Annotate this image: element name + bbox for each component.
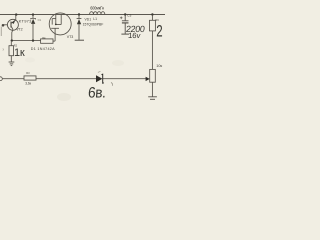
svg-text:1к: 1к [14, 47, 25, 59]
svg-text:600мкГн: 600мкГн [90, 6, 104, 11]
inductor L1 [90, 12, 105, 15]
ground under C3 [121, 33, 129, 35]
svg-text:VT3: VT3 [67, 35, 73, 39]
node control-left junction [11, 39, 13, 41]
resistor R9 [150, 16, 156, 70]
svg-text:10к: 10к [156, 64, 162, 68]
node zener top junction [32, 13, 34, 15]
transistor Q VT2 [3, 15, 18, 39]
left-edge blob (cut-off wire) [2, 24, 5, 27]
svg-text:2: 2 [156, 22, 162, 41]
paper background [0, 0, 165, 110]
resistor R3 [24, 76, 36, 80]
wire left-edge faint stub [0, 27, 2, 37]
ground under potentiometer [148, 97, 157, 100]
wire control line [12, 40, 41, 42]
ground under VD1 [75, 39, 84, 41]
svg-text:6в.: 6в. [87, 85, 106, 102]
svg-text:16v: 16v [128, 31, 141, 40]
node VD1 junction [78, 13, 80, 15]
svg-text:VT2: VT2 [16, 27, 22, 31]
svg-text:C3: C3 [127, 14, 131, 18]
svg-text:R4: R4 [42, 36, 46, 40]
faint mark right of 6v [111, 83, 113, 86]
node zener bottom junction [32, 39, 34, 41]
wire top rail [0, 14, 165, 16]
transistor VT2 emitter arrow [12, 20, 16, 24]
svg-text:KT973: KT973 [19, 19, 33, 24]
wire bottom rail [2, 78, 146, 80]
svg-text:15TQ060PBF: 15TQ060PBF [83, 22, 104, 26]
faint mark above diode [98, 71, 101, 74]
svg-text:D1: D1 [38, 18, 42, 22]
node C3 junction [124, 13, 126, 15]
resistor R4 (gate) [41, 39, 56, 43]
svg-text:L1: L1 [93, 17, 97, 21]
plus sign [120, 17, 123, 20]
node emitter junction [15, 13, 17, 15]
svg-text:R3: R3 [26, 71, 30, 75]
zener diode D1 [31, 16, 36, 40]
schottky diode VD1 [77, 16, 82, 40]
node R9 junction [151, 13, 153, 15]
wiper arrow [146, 77, 150, 81]
svg-text:3,6к: 3,6к [25, 82, 31, 86]
potentiometer R10 [150, 69, 156, 96]
resistor R2 [9, 42, 14, 62]
faint paper smudges [57, 93, 71, 101]
ground under R2 [9, 62, 15, 66]
diode D3 bottom [96, 75, 102, 82]
mosfet VT3 [49, 13, 71, 41]
svg-text:D1 1N4742A: D1 1N4742A [31, 47, 55, 51]
capacitor C3 [122, 16, 129, 34]
terminal circle bottom-left [0, 77, 2, 81]
svg-text:VD1: VD1 [85, 18, 92, 22]
